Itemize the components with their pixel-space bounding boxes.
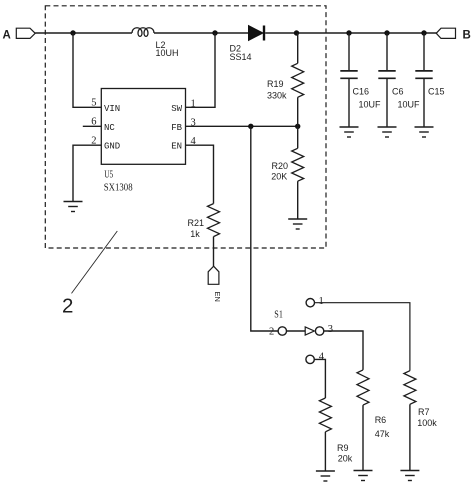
svg-text:R19: R19 xyxy=(267,79,284,89)
svg-text:5: 5 xyxy=(91,98,96,109)
wire junction A down to VIN xyxy=(73,33,101,107)
wire R19 to FB xyxy=(297,97,299,126)
svg-text:R20: R20 xyxy=(272,161,289,171)
wire FB net xyxy=(186,125,298,127)
ground (R9) xyxy=(316,471,335,481)
svg-text:C6: C6 xyxy=(392,86,404,96)
svg-text:10UH: 10UH xyxy=(156,48,179,58)
ground (R7) xyxy=(400,471,419,481)
wire R7 to ground xyxy=(409,404,411,470)
svg-text:6: 6 xyxy=(91,117,96,128)
svg-text:10UF: 10UF xyxy=(398,99,421,109)
wire GND pin to ground xyxy=(73,145,101,201)
leader line to label 2 xyxy=(72,231,118,293)
IC U5 SX1308 xyxy=(101,89,185,165)
wire SW to top rail xyxy=(186,33,216,107)
svg-text:A: A xyxy=(3,30,11,42)
svg-text:R7: R7 xyxy=(418,407,430,417)
wire FB to R20 xyxy=(297,126,299,148)
capacitor C6 xyxy=(386,33,388,71)
wire R21 to EN tag xyxy=(213,237,215,267)
resistor R19 xyxy=(292,63,304,97)
S1 pin 4 circle xyxy=(306,355,314,363)
ground (C6) xyxy=(378,127,397,137)
node: C16 junction xyxy=(346,30,351,35)
svg-text:20k: 20k xyxy=(338,454,353,464)
ground (R20) xyxy=(288,219,307,229)
wire diode to B xyxy=(265,32,437,34)
svg-text:FB: FB xyxy=(171,123,182,133)
inductor L2 xyxy=(132,28,154,37)
wire pin2 to wiper xyxy=(287,330,306,332)
wire pin4 to R9 xyxy=(314,359,325,398)
wire top rail down to R19 xyxy=(297,33,299,63)
svg-text:R9: R9 xyxy=(337,443,349,453)
wire FB tap down to switch xyxy=(251,126,278,331)
svg-text:EN: EN xyxy=(213,292,222,302)
S1 pin 2 circle xyxy=(278,327,286,335)
ground (C16) xyxy=(340,127,359,137)
connector B xyxy=(436,28,455,38)
wire pin1 to R7 xyxy=(315,303,410,371)
S1 pin 3 circle xyxy=(315,327,323,335)
svg-text:1k: 1k xyxy=(190,229,200,239)
ground (C15) xyxy=(415,127,434,137)
svg-text:R6: R6 xyxy=(375,415,387,425)
svg-text:SW: SW xyxy=(171,104,182,114)
S1 pin 1 circle xyxy=(306,299,314,307)
svg-text:330k: 330k xyxy=(267,90,287,100)
node: SW junction xyxy=(212,30,217,35)
svg-text:GND: GND xyxy=(104,142,120,152)
svg-text:C16: C16 xyxy=(353,86,370,96)
wire pin3 to R6 xyxy=(324,331,363,370)
capacitor C15 xyxy=(423,33,425,71)
connector EN xyxy=(208,266,219,284)
diode D2 xyxy=(249,26,264,41)
svg-text:U5: U5 xyxy=(104,169,113,180)
wire EN to R21 xyxy=(186,145,214,203)
node: FB tap junction xyxy=(248,124,253,129)
svg-text:B: B xyxy=(463,30,471,42)
dashed box (module boundary) xyxy=(45,6,326,248)
node: C15 junction xyxy=(421,30,426,35)
svg-text:SS14: SS14 xyxy=(230,52,252,62)
svg-text:10UF: 10UF xyxy=(359,99,382,109)
svg-text:3: 3 xyxy=(328,324,333,335)
svg-text:S1: S1 xyxy=(274,310,283,321)
svg-text:SX1308: SX1308 xyxy=(104,182,133,193)
svg-text:VIN: VIN xyxy=(104,104,120,114)
svg-text:20K: 20K xyxy=(271,172,287,182)
svg-text:2: 2 xyxy=(269,326,274,337)
svg-text:2: 2 xyxy=(62,295,73,318)
pin 6 (NC stub) xyxy=(83,125,102,127)
connector A xyxy=(16,28,35,38)
svg-text:4: 4 xyxy=(319,351,325,362)
node: C6 junction xyxy=(384,30,389,35)
svg-text:C15: C15 xyxy=(428,86,445,96)
svg-text:R21: R21 xyxy=(188,218,205,228)
wire A to inductor xyxy=(35,32,132,34)
node: FB divider junction xyxy=(295,124,300,129)
ground (R6) xyxy=(354,471,373,481)
resistor R20 xyxy=(292,148,304,181)
wire R6 to ground xyxy=(362,405,364,470)
resistor R21 xyxy=(208,204,220,237)
svg-text:1: 1 xyxy=(319,296,324,307)
capacitor C16 xyxy=(348,33,350,71)
svg-text:NC: NC xyxy=(104,123,115,133)
S1 wiper arrow xyxy=(305,327,314,335)
wire inductor to diode xyxy=(154,32,249,34)
svg-text:EN: EN xyxy=(171,142,182,152)
svg-text:100k: 100k xyxy=(417,418,437,428)
wire R20 to ground xyxy=(297,181,299,219)
svg-text:47k: 47k xyxy=(375,429,390,439)
resistor R6 xyxy=(357,370,369,405)
node: R19 top junction xyxy=(294,30,299,35)
resistor R7 xyxy=(404,371,416,405)
ground (U5 GND) xyxy=(64,202,83,212)
resistor R9 xyxy=(319,398,331,432)
wire R9 to ground xyxy=(324,432,326,471)
node: A junction xyxy=(70,30,75,35)
